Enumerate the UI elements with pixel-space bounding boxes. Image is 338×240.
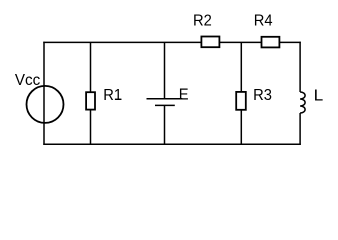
label R1	[103, 86, 122, 104]
wire right rail lower	[299, 113, 301, 145]
wire E branch lower	[164, 105, 166, 144]
resistor R4	[262, 37, 280, 48]
svg-text:R3: R3	[253, 87, 272, 105]
label R4	[254, 12, 273, 30]
svg-text:Vcc: Vcc	[15, 72, 41, 89]
label L	[314, 86, 324, 104]
inductor L coil	[300, 92, 305, 113]
wire R1 branch upper	[90, 42, 92, 93]
battery E plate long	[147, 98, 183, 100]
resistor R3	[236, 92, 246, 110]
resistor R1	[86, 92, 95, 109]
wire R3 branch lower	[240, 110, 242, 145]
wire bottom horizontal	[43, 143, 301, 145]
wire top horizontal	[43, 41, 301, 43]
svg-text:L: L	[314, 86, 324, 104]
wire E branch upper	[164, 42, 166, 99]
label Vcc	[15, 72, 41, 89]
battery E plate short	[155, 104, 175, 106]
label R2	[193, 12, 212, 30]
wire R1 branch lower	[90, 110, 92, 145]
wire left rail	[43, 42, 45, 145]
wire right rail upper	[299, 42, 301, 92]
svg-text:R4: R4	[254, 12, 273, 30]
voltage source Vcc	[27, 86, 64, 123]
wire R3 branch upper	[240, 42, 242, 92]
svg-text:R2: R2	[193, 12, 212, 30]
resistor R2	[201, 37, 219, 48]
label R3	[253, 87, 272, 105]
svg-text:R1: R1	[103, 86, 122, 104]
label E	[179, 86, 189, 104]
svg-text:E: E	[179, 86, 189, 104]
